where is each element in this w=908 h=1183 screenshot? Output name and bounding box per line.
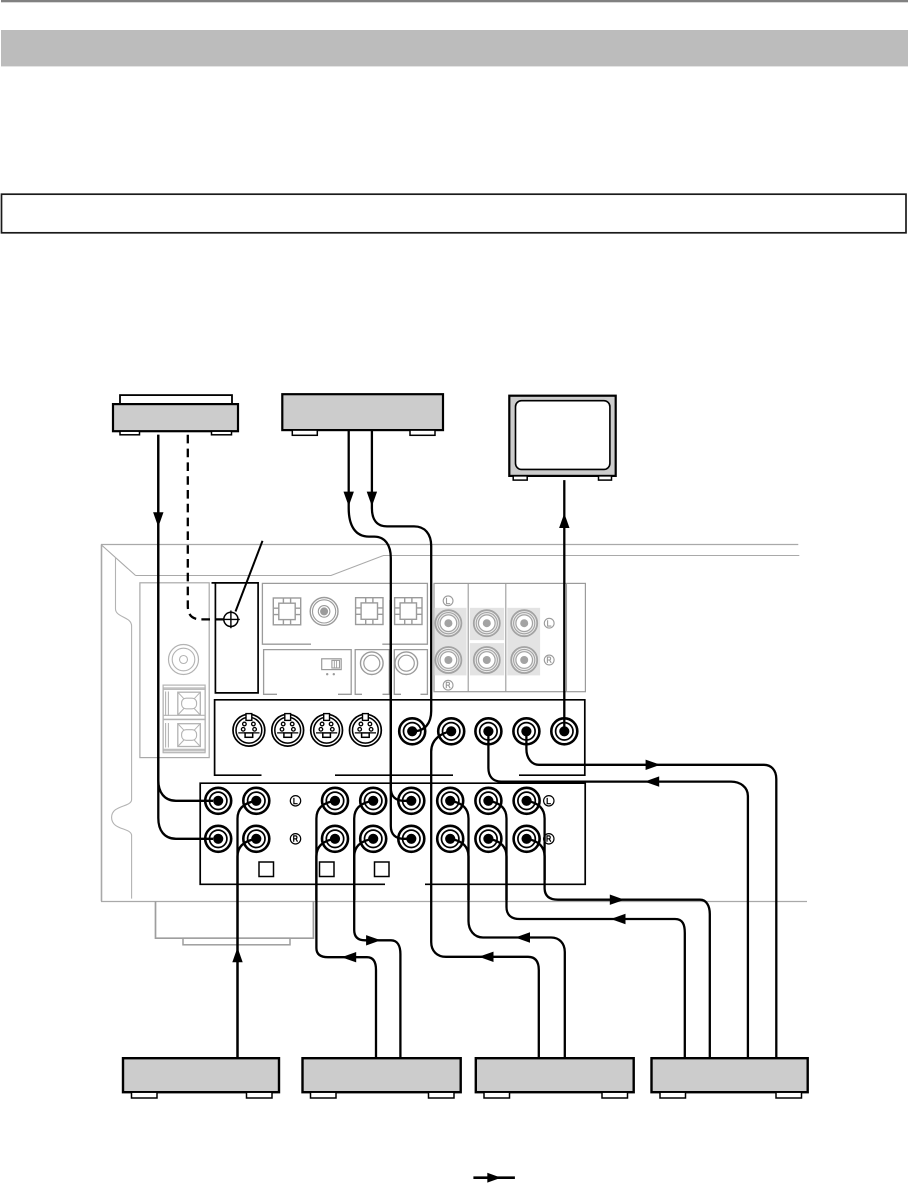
label R circle audio right [544, 834, 554, 844]
wire phono R from turntable [158, 435, 213, 839]
turntable lid [120, 395, 232, 404]
top rule [1, 0, 908, 2]
left inner panel rect [140, 583, 209, 758]
wire tape2 play c7L [488, 801, 684, 1058]
s-video jack 1 [233, 714, 265, 747]
s-video jack 3 [311, 714, 343, 747]
pointer line to antenna terminal [236, 541, 263, 612]
receiver foot bar [183, 938, 290, 945]
optical connector 2 [356, 598, 383, 625]
receiver pedestal [156, 901, 314, 938]
tv foot left [513, 476, 527, 480]
multichannel divider 1 [467, 583, 469, 691]
arrowhead left on video jack3 wire [645, 776, 660, 786]
gray RCA jack surround R [435, 647, 461, 673]
bottom device 1 [123, 1058, 279, 1092]
gray RCA jack surround L [435, 610, 461, 636]
arrowhead right on video jack4 wire [646, 760, 661, 770]
wire cd from device1 to c2 jacks [238, 801, 257, 1058]
round connector box B [394, 650, 427, 695]
audio jack c6L [437, 788, 463, 814]
arrowhead up on tv wire [559, 513, 569, 528]
wire video jack4 output to device4 [526, 731, 776, 1058]
audio jack c1R [205, 826, 231, 852]
note box [2, 194, 907, 233]
wire video jack2 input from device3 [431, 731, 539, 1058]
label L circle right [544, 618, 554, 628]
multichannel divider 3 [566, 583, 568, 691]
video RCA jack 3 [475, 718, 501, 744]
antenna terminal plus cross [222, 611, 240, 629]
arrowhead right on tape1 rec wire [366, 935, 381, 945]
optical connector 1 [273, 598, 300, 625]
audio jack c5L [398, 788, 424, 814]
audio section box [200, 783, 585, 884]
digital section box [262, 583, 427, 644]
arrowhead down on phono wire [153, 512, 163, 527]
device2 foot right [429, 1092, 455, 1098]
gray RCA jack front L [511, 610, 537, 636]
device1 foot right [247, 1092, 273, 1098]
audio jack c5R [398, 826, 424, 852]
shaded cell col1 [434, 608, 466, 676]
multichannel input section frame [434, 583, 585, 691]
device3 foot right [602, 1092, 628, 1098]
wire tape1 rec c4R [354, 839, 373, 900]
receiver panel top edge [136, 556, 800, 576]
optical connector 3 [395, 598, 422, 625]
round connector B [395, 652, 418, 675]
wire tape2 rec c8L [527, 801, 710, 1058]
vcr foot left [292, 430, 317, 435]
gray RCA jack front R [511, 647, 537, 673]
video RCA jack 2 [438, 718, 464, 744]
tv screen [516, 401, 610, 470]
speaker terminal block frame [163, 685, 205, 753]
wire tape2 play c7R [488, 839, 506, 900]
audio jack c6R [437, 826, 463, 852]
turntable body [113, 404, 238, 431]
switch box [264, 650, 352, 695]
coaxial connector [310, 598, 338, 626]
device3 foot left [484, 1092, 510, 1098]
device1 foot left [132, 1092, 158, 1098]
audio jack c2L [243, 788, 269, 814]
arrowhead left on tape1 play wire [342, 952, 357, 962]
audio jack c2R [243, 826, 269, 852]
arrowhead left on video jack2 wire [479, 952, 494, 962]
audio jack c3R [322, 826, 348, 852]
label L circle audio [290, 796, 300, 806]
audio jack c7R [475, 826, 501, 852]
shaded cell col3 [507, 608, 540, 676]
turntable foot right [212, 431, 232, 435]
video RCA jack 4 [513, 718, 539, 744]
ac outlet square 3 [375, 862, 390, 877]
shaded cell col2 bottom [470, 643, 504, 675]
label L circle audio right [544, 796, 554, 806]
wire video jack3 input from device4 [488, 731, 748, 1058]
s-video jack 4 [350, 714, 382, 747]
receiver bottom edge [101, 901, 807, 903]
receiver top back edge [101, 544, 798, 546]
arrowhead down on vcr audio wire [344, 492, 354, 507]
vcr body [282, 394, 443, 430]
audio jack c3L [322, 788, 348, 814]
audio jack c1L [205, 788, 231, 814]
wire md play c6L [450, 801, 565, 1058]
video section box [215, 700, 585, 775]
wire md play c6R [450, 839, 468, 900]
rs232 switch [322, 659, 342, 670]
label R circle right [544, 655, 554, 665]
wire tape1 rec c4L [354, 801, 400, 1058]
wire cd R overlap [238, 839, 257, 1058]
wire ground dashed from turntable [188, 435, 224, 620]
label R circle bottom [443, 680, 453, 690]
audio jack c8L [514, 788, 540, 814]
receiver top-left corner bevel [102, 545, 136, 576]
ac outlet square 1 [259, 862, 274, 877]
wire vcr audio to c5R [391, 600, 411, 839]
multichannel divider 2 [505, 583, 507, 691]
speaker terminal block divider [163, 689, 205, 749]
speaker terminal B [163, 720, 205, 751]
antenna box [212, 583, 259, 693]
audio jack c4R [360, 826, 386, 852]
wire phono L from turntable [158, 435, 213, 801]
arrowhead left on md play wire [515, 932, 530, 942]
tv foot right [599, 476, 612, 480]
label R circle audio [290, 834, 300, 844]
bottom device 2 [303, 1058, 461, 1092]
gray RCA jack center R [474, 647, 500, 673]
ground terminal circle mid [172, 648, 195, 671]
arrowhead right on tape2 rec wire [610, 895, 625, 905]
receiver left outer edge [101, 545, 103, 902]
wire tape1 play c3L [316, 801, 376, 1058]
ground terminal circle outer [169, 645, 199, 675]
arrowhead up on cd wire [232, 948, 242, 963]
wire vcr video to video jack1 [372, 430, 431, 731]
audio jack c8R [514, 826, 540, 852]
wire tape2 rec c8R [527, 839, 545, 880]
bottom device 4 [652, 1058, 808, 1092]
shaded cell col2 top [470, 608, 504, 640]
ac outlet square 2 [320, 862, 335, 877]
arrowhead down on vcr video wire [367, 492, 377, 507]
gray RCA jack center L [474, 610, 500, 636]
speaker terminal A [163, 688, 205, 719]
device4 foot left [660, 1092, 686, 1098]
header gray band [1, 30, 908, 66]
round connector A [361, 652, 384, 675]
signal flow arrow bottom [473, 1173, 515, 1183]
video RCA jack 5 monitor out [551, 718, 577, 744]
wire vcr audio to c5L [349, 430, 411, 801]
video RCA jack 1 [399, 718, 425, 744]
tv body [509, 396, 615, 476]
round connector box A [355, 650, 389, 695]
antenna ground terminal circle [224, 612, 238, 626]
vcr foot right [410, 430, 435, 435]
wire tv monitor from video jack5 [563, 480, 565, 730]
wire tape1 play c3R [316, 839, 335, 900]
audio jack c7L [475, 788, 501, 814]
device2 foot left [311, 1092, 337, 1098]
bottom device 3 [476, 1058, 634, 1092]
ground terminal circle dot [180, 656, 188, 664]
arrowhead left on tape2 play wire [611, 914, 626, 924]
s-video jack 2 [272, 714, 304, 747]
audio jack c4L [360, 788, 386, 814]
device4 foot right [776, 1092, 802, 1098]
receiver side crease with handle notch [112, 557, 132, 898]
label L circle top [443, 596, 453, 606]
turntable foot left [120, 431, 140, 435]
